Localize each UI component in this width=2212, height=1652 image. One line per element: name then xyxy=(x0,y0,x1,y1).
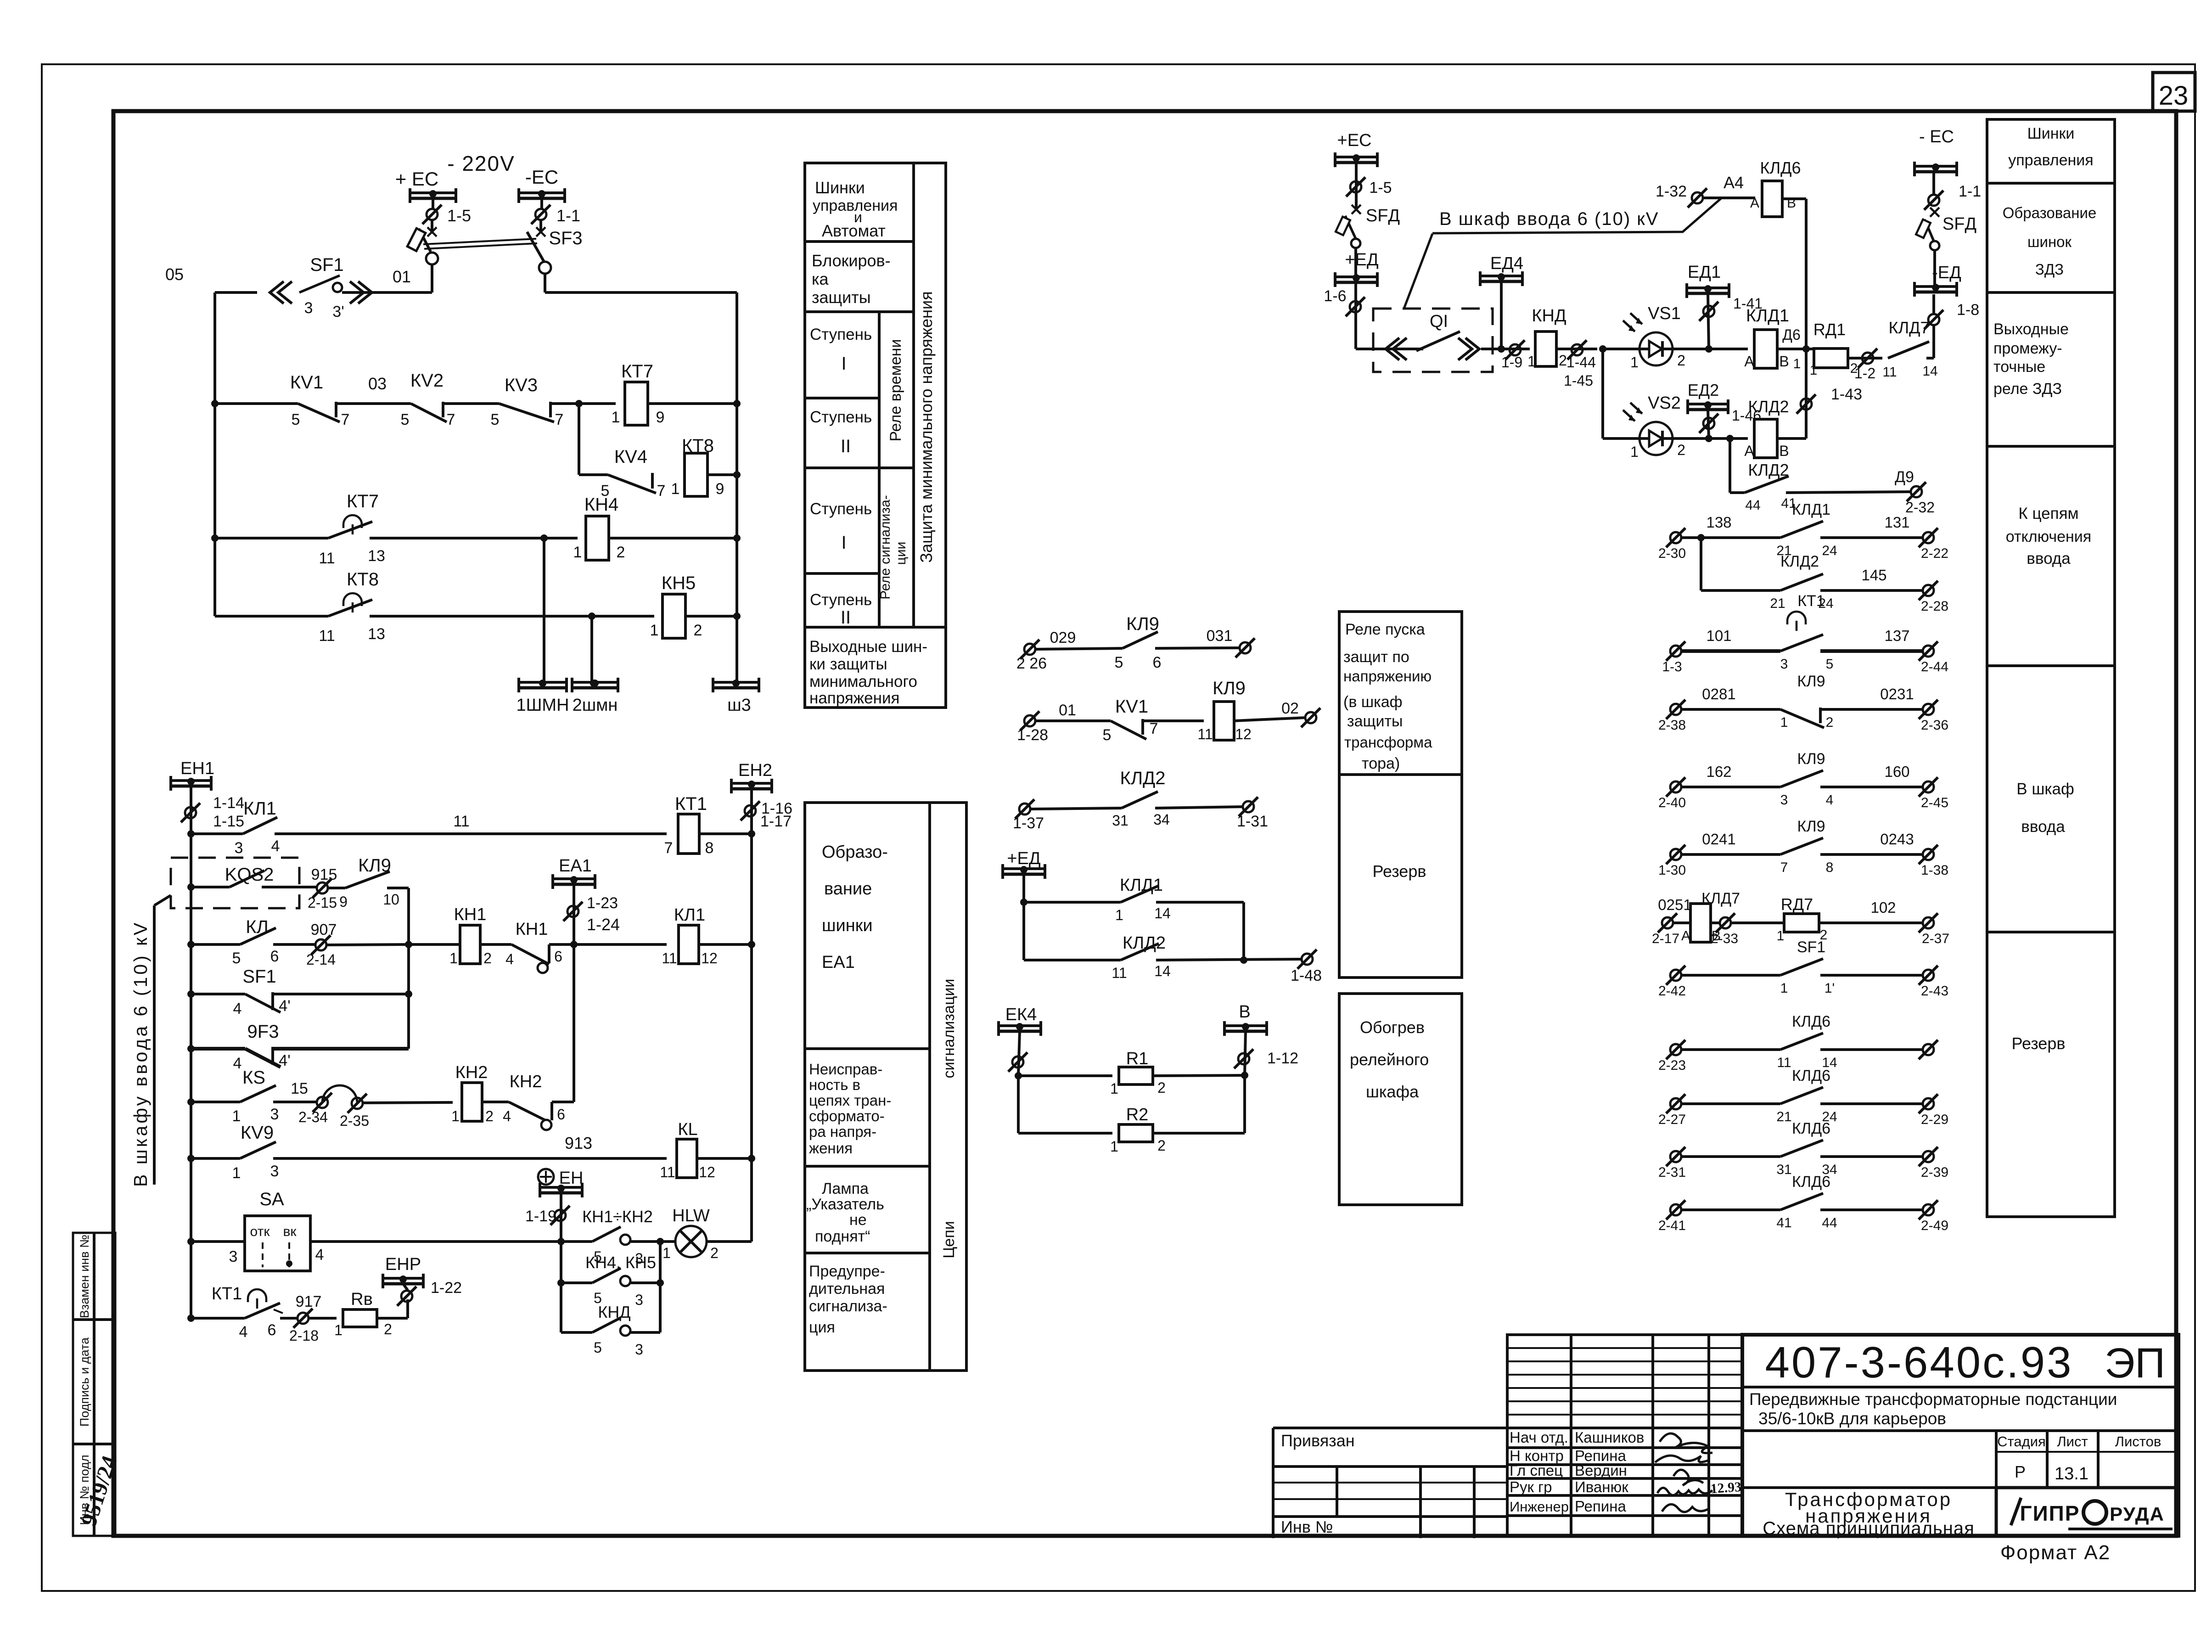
contact row KL9 0241-0243 xyxy=(1670,849,1681,860)
svg-text:А: А xyxy=(1681,928,1690,944)
svg-text:2: 2 xyxy=(710,1245,719,1261)
svg-text:5: 5 xyxy=(401,411,410,428)
svg-text:11: 11 xyxy=(1777,1055,1791,1070)
svg-text:1-43: 1-43 xyxy=(1831,386,1862,403)
svg-text:Неисправ-: Неисправ- xyxy=(809,1061,882,1078)
svg-text:Блокиров-: Блокиров- xyxy=(812,251,891,270)
dashed box KQS2 xyxy=(171,858,299,908)
terminal 1-22 xyxy=(401,1291,412,1302)
svg-text:5: 5 xyxy=(1826,657,1834,672)
wire row B1 xyxy=(275,832,667,835)
svg-text:2-36: 2-36 xyxy=(1921,718,1948,733)
svg-text:913: 913 xyxy=(565,1134,592,1152)
wire KT1-rail xyxy=(699,832,752,835)
svg-text:3: 3 xyxy=(270,1163,279,1180)
svg-text:12.93: 12.93 xyxy=(1710,1479,1742,1497)
terminal E7 right xyxy=(1923,1044,1934,1055)
svg-text:5: 5 xyxy=(491,411,500,428)
svg-text:2: 2 xyxy=(1157,1137,1166,1154)
svg-text:Инженер: Инженер xyxy=(1510,1499,1569,1515)
wire KT8-rail xyxy=(707,473,737,476)
svg-text:+ЕД: +ЕД xyxy=(1345,250,1379,270)
svg-text:31: 31 xyxy=(1776,1162,1791,1177)
svg-text:КТ7: КТ7 xyxy=(347,491,379,511)
svg-text:жения: жения xyxy=(809,1140,853,1157)
svg-text:1: 1 xyxy=(451,1108,460,1124)
terminal 1-2 xyxy=(1862,353,1873,364)
svg-text:2-14: 2-14 xyxy=(306,951,336,968)
svg-text:SFД: SFД xyxy=(1366,206,1400,225)
svg-text:II: II xyxy=(841,607,851,628)
svg-text:2-18: 2-18 xyxy=(289,1327,319,1344)
svg-text:КЛ9: КЛ9 xyxy=(1797,750,1825,768)
svg-text:145: 145 xyxy=(1861,567,1886,584)
svg-text:1-30: 1-30 xyxy=(1658,863,1686,878)
svg-text:12: 12 xyxy=(699,1164,715,1180)
contact 9F3 xyxy=(187,1045,195,1052)
svg-text:4: 4 xyxy=(233,1055,242,1072)
svg-text:1-12: 1-12 xyxy=(1267,1050,1298,1067)
svg-text:1: 1 xyxy=(1630,444,1639,460)
svg-text:1-1: 1-1 xyxy=(556,206,580,225)
svg-text:Взамен инв №: Взамен инв № xyxy=(78,1235,91,1318)
svg-text:шинок: шинок xyxy=(2027,233,2072,250)
svg-text:1: 1 xyxy=(1527,353,1536,370)
svg-text:Передвижные трансформаторные п: Передвижные трансформаторные подстанции xyxy=(1749,1390,2117,1409)
wire KH5-rail xyxy=(685,615,737,618)
wire C5 right xyxy=(1156,959,1302,960)
svg-text:2-30: 2-30 xyxy=(1658,546,1686,561)
svg-text:КЛД2: КЛД2 xyxy=(1780,553,1819,570)
svg-text:14: 14 xyxy=(1154,905,1171,922)
titleblock logo box xyxy=(1996,1488,2178,1536)
svg-text:1-37: 1-37 xyxy=(1013,815,1044,832)
svg-text:SF1: SF1 xyxy=(242,966,276,987)
terminal 1-44 xyxy=(1572,344,1583,355)
terminal 1-8 xyxy=(1928,314,1939,325)
svg-text:44: 44 xyxy=(1822,1215,1837,1231)
svg-text:Rв: Rв xyxy=(351,1290,373,1309)
svg-text:2-40: 2-40 xyxy=(1658,795,1686,810)
contact KT1 time xyxy=(187,1315,195,1322)
svg-text:QI: QI xyxy=(1430,312,1448,331)
svg-text:RД7: RД7 xyxy=(1781,895,1813,914)
svg-text:34: 34 xyxy=(1153,811,1170,828)
svg-text:11: 11 xyxy=(453,813,469,830)
svg-text:2-37: 2-37 xyxy=(1922,931,1949,946)
table T2 box xyxy=(805,803,966,1371)
breaker SFD right xyxy=(1933,250,1936,287)
svg-text:Привязан: Привязан xyxy=(1281,1431,1355,1450)
wire C2 mid xyxy=(1143,719,1204,722)
contact row SF1 1-1p xyxy=(1670,970,1681,981)
svg-text:трансформа: трансформа xyxy=(1344,734,1432,751)
svg-text:1-48: 1-48 xyxy=(1291,967,1322,984)
svg-text:релейного: релейного xyxy=(1350,1050,1429,1069)
wire R2 right xyxy=(1153,1132,1245,1135)
svg-text:1: 1 xyxy=(662,1245,671,1261)
wire KV4 branch xyxy=(578,404,580,475)
svg-text:2: 2 xyxy=(483,950,492,966)
svg-text:01: 01 xyxy=(393,267,411,286)
wire +ED down xyxy=(1022,874,1025,960)
svg-text:1: 1 xyxy=(671,480,680,498)
wire KH2 to EA1 xyxy=(552,1101,574,1103)
svg-text:КL: КL xyxy=(678,1120,697,1139)
svg-text:1: 1 xyxy=(1780,715,1788,730)
svg-text:8: 8 xyxy=(705,839,714,857)
wire -EC down xyxy=(540,198,543,209)
svg-text:ЕА1: ЕА1 xyxy=(559,856,592,876)
bus -ED xyxy=(1932,294,1935,314)
svg-text:1-5: 1-5 xyxy=(447,206,471,225)
terminal 1-41 xyxy=(1703,306,1714,317)
svg-text:+ EC: + EC xyxy=(395,168,439,190)
svg-text:точные: точные xyxy=(1993,358,2045,376)
svg-text:2-44: 2-44 xyxy=(1921,659,1948,674)
svg-text:2: 2 xyxy=(1559,352,1567,369)
svg-text:41: 41 xyxy=(1776,1215,1791,1231)
svg-text:5: 5 xyxy=(232,950,241,967)
terminal 1-5 xyxy=(427,209,438,220)
svg-text:2-45: 2-45 xyxy=(1921,795,1948,810)
contact KV9 xyxy=(187,1155,195,1162)
svg-text:ЕН1: ЕН1 xyxy=(180,759,214,778)
svg-text:4: 4 xyxy=(1826,792,1834,808)
svg-text:24: 24 xyxy=(1822,543,1837,558)
contact KS xyxy=(187,1098,195,1106)
svg-text:4': 4' xyxy=(279,1052,290,1069)
svg-text:1-14: 1-14 xyxy=(213,794,244,812)
svg-text:1: 1 xyxy=(232,1107,241,1125)
svg-text:Репина: Репина xyxy=(1575,1498,1626,1515)
svg-text:3: 3 xyxy=(229,1248,238,1265)
svg-text:2: 2 xyxy=(617,544,625,561)
svg-text:напряжения: напряжения xyxy=(809,689,899,707)
svg-text:23: 23 xyxy=(2159,81,2189,111)
terminal C2 right xyxy=(1305,712,1316,723)
svg-text:КНД: КНД xyxy=(598,1303,630,1321)
svg-text:11: 11 xyxy=(660,1164,675,1180)
svg-text:1: 1 xyxy=(232,1164,241,1182)
svg-text:101: 101 xyxy=(1706,627,1731,644)
wire EK4 down xyxy=(1018,1031,1020,1076)
svg-text:031: 031 xyxy=(1207,627,1233,645)
contact row KLD6 31-34 xyxy=(1670,1151,1681,1162)
switch SF1 chevron right xyxy=(358,281,372,303)
svg-text:I: I xyxy=(841,354,846,374)
svg-text:Ступень: Ступень xyxy=(810,500,872,518)
svg-text:1: 1 xyxy=(1110,1080,1118,1097)
svg-text:А: А xyxy=(1750,196,1759,211)
svg-text:7: 7 xyxy=(341,411,350,428)
svg-text:шинки: шинки xyxy=(822,916,873,935)
bus 2ShMN xyxy=(572,681,618,684)
titleblock signature 4 xyxy=(1657,1488,1712,1495)
svg-text:КV9: КV9 xyxy=(241,1123,274,1143)
svg-text:ка: ка xyxy=(812,270,829,288)
svg-text:2: 2 xyxy=(694,622,702,639)
rail A left xyxy=(213,292,216,616)
breaker SF3 blade xyxy=(527,232,544,262)
contact row KL9 162-160 xyxy=(1670,781,1681,792)
wire row A0 right xyxy=(342,291,432,294)
svg-text:не: не xyxy=(849,1211,867,1229)
svg-text:2-23: 2-23 xyxy=(1658,1058,1686,1073)
svg-text:реле ЗДЗ: реле ЗДЗ xyxy=(1993,380,2062,398)
svg-text:КЛД7: КЛД7 xyxy=(1889,318,1930,337)
svg-text:11: 11 xyxy=(1197,726,1213,742)
svg-text:Резерв: Резерв xyxy=(1373,862,1426,881)
svg-text:КН1: КН1 xyxy=(516,920,548,939)
svg-text:1: 1 xyxy=(1780,981,1788,996)
svg-text:2-29: 2-29 xyxy=(1921,1112,1948,1127)
wire down 2SHMN xyxy=(590,616,593,682)
terminal 1-16 1-17 xyxy=(745,805,756,816)
svg-text:5: 5 xyxy=(1115,654,1123,671)
svg-text:Формат А2: Формат А2 xyxy=(2000,1541,2111,1564)
svg-text:1ШМН: 1ШМН xyxy=(516,696,569,715)
svg-text:Д6: Д6 xyxy=(1782,326,1800,343)
wire down 1SHMN xyxy=(543,538,545,682)
svg-text:2: 2 xyxy=(1677,352,1685,369)
svg-text:2-42: 2-42 xyxy=(1658,983,1686,999)
titleblock main box xyxy=(1742,1335,2178,1536)
wire KT7-rail xyxy=(648,402,737,405)
wire C2 left xyxy=(1035,719,1111,722)
svg-text:13: 13 xyxy=(368,625,385,643)
svg-text:Рук гр: Рук гр xyxy=(1510,1478,1552,1495)
titleblock signature 1 xyxy=(1660,1433,1712,1453)
svg-text:КЛД6: КЛД6 xyxy=(1792,1067,1830,1084)
svg-text:КЛ9: КЛ9 xyxy=(1126,614,1159,634)
svg-text:1-19: 1-19 xyxy=(525,1208,556,1225)
svg-text:1-22: 1-22 xyxy=(431,1279,462,1297)
svg-text:2-38: 2-38 xyxy=(1658,718,1686,733)
svg-text:ЗДЗ: ЗДЗ xyxy=(2035,261,2064,278)
svg-text:1-17: 1-17 xyxy=(760,813,792,830)
wire RD1 right xyxy=(1848,357,1882,360)
wire 2-35 to KH2 xyxy=(363,1102,453,1103)
svg-text:2-34: 2-34 xyxy=(298,1109,328,1125)
svg-text:ЕНР: ЕНР xyxy=(385,1255,421,1274)
svg-text:VS2: VS2 xyxy=(1648,393,1681,413)
svg-text:Ступень: Ступень xyxy=(810,591,872,609)
svg-text:44: 44 xyxy=(1745,498,1760,513)
svg-text:1-32: 1-32 xyxy=(1656,183,1687,200)
svg-text:1: 1 xyxy=(612,409,620,426)
contact row KLD6 11-14 xyxy=(1670,1044,1681,1055)
svg-text:6: 6 xyxy=(554,948,562,965)
svg-text:Р: Р xyxy=(2015,1462,2026,1481)
wire ED4 down xyxy=(1500,281,1503,349)
svg-text:02: 02 xyxy=(1281,700,1299,717)
svg-text:отк: отк xyxy=(250,1224,270,1239)
svg-text:Защита минимального напряжения: Защита минимального напряжения xyxy=(917,291,936,562)
terminal 1-1 right xyxy=(1928,195,1939,206)
svg-text:Резерв: Резерв xyxy=(2012,1034,2066,1053)
contact row KT1 101-137 xyxy=(1670,646,1681,657)
svg-text:защиты: защиты xyxy=(1347,713,1403,730)
rail B left xyxy=(190,786,192,1318)
svg-text:SFД: SFД xyxy=(1943,214,1977,234)
titleblock mini table xyxy=(1507,1335,1742,1536)
wire R1 row xyxy=(1015,1072,1022,1079)
svg-text:9: 9 xyxy=(716,480,724,498)
svg-text:1: 1 xyxy=(650,622,659,639)
svg-text:КV2: КV2 xyxy=(410,371,444,391)
svg-text:2шмн: 2шмн xyxy=(573,696,618,715)
wire KH4-rail xyxy=(609,537,737,539)
junction VS xyxy=(1599,345,1606,353)
svg-text:7: 7 xyxy=(1150,720,1158,737)
terminal EK4 xyxy=(1012,1056,1023,1068)
svg-text:21: 21 xyxy=(1770,596,1785,611)
svg-text:1': 1' xyxy=(1825,981,1835,996)
terminal 1-48 xyxy=(1302,954,1313,965)
svg-text:Кашников: Кашников xyxy=(1575,1429,1644,1446)
svg-text:цепях тран-: цепях тран- xyxy=(809,1092,891,1109)
wire C3 right xyxy=(1155,807,1243,808)
svg-text:Реле времени: Реле времени xyxy=(887,339,904,441)
svg-text:шкафа: шкафа xyxy=(1366,1082,1419,1101)
svg-text:„Указатель: „Указатель xyxy=(806,1196,884,1213)
svg-text:7: 7 xyxy=(447,411,455,428)
wire ED2 down xyxy=(1708,410,1709,438)
svg-text:защит по: защит по xyxy=(1343,648,1409,666)
svg-text:R2: R2 xyxy=(1126,1105,1149,1124)
svg-text:2-28: 2-28 xyxy=(1921,599,1948,614)
contact row KLD1 138-131 xyxy=(1670,532,1681,543)
svg-text:ция: ция xyxy=(809,1319,835,1336)
wire KT8c mid xyxy=(370,615,654,618)
svg-text:1-38: 1-38 xyxy=(1921,863,1948,878)
svg-text:1: 1 xyxy=(449,950,458,966)
svg-text:Лист: Лист xyxy=(2057,1433,2088,1450)
bus Sh3 xyxy=(713,681,759,684)
wire R8 to EHP xyxy=(377,1317,408,1320)
svg-text:11: 11 xyxy=(1112,965,1127,981)
svg-text:3: 3 xyxy=(1780,792,1788,808)
svg-text:Лампа: Лампа xyxy=(822,1180,869,1197)
svg-text:ввода: ввода xyxy=(2027,550,2071,568)
svg-text:3: 3 xyxy=(1780,657,1788,672)
svg-text:сформато-: сформато- xyxy=(809,1107,885,1124)
svg-text:Образо-: Образо- xyxy=(822,843,888,862)
contact row KLD6 41-44 xyxy=(1670,1204,1681,1215)
wire KV1-KV2 xyxy=(336,402,411,405)
contact KH2 xyxy=(482,1101,509,1103)
svg-text:КЛД2: КЛД2 xyxy=(1120,768,1166,788)
wire VS1 right xyxy=(1673,348,1748,350)
svg-text:Шинки: Шинки xyxy=(2027,125,2075,142)
svg-text:А: А xyxy=(1744,353,1754,370)
svg-text:Шинки: Шинки xyxy=(815,178,865,197)
svg-text:К цепям: К цепям xyxy=(2018,505,2078,523)
svg-text:1-3: 1-3 xyxy=(1662,659,1682,674)
wire row KV9 xyxy=(273,1157,667,1160)
margin table box xyxy=(73,1233,115,1536)
resistor R8 xyxy=(309,1317,337,1320)
terminal 2-34 xyxy=(317,1097,328,1108)
wire KS out xyxy=(273,1101,317,1103)
svg-text:10: 10 xyxy=(383,891,399,908)
svg-text:VS1: VS1 xyxy=(1648,304,1681,323)
svg-text:Предупре-: Предупре- xyxy=(809,1263,885,1280)
contact row KLD6 21-24 xyxy=(1670,1098,1681,1109)
svg-text:КН2: КН2 xyxy=(510,1072,542,1091)
svg-text:11: 11 xyxy=(1882,365,1897,380)
table T5 grid xyxy=(1987,182,2115,185)
svg-text:907: 907 xyxy=(311,921,337,938)
svg-text:ЕД2: ЕД2 xyxy=(1688,381,1719,399)
svg-text:1-23: 1-23 xyxy=(587,894,618,912)
terminal 1-6 xyxy=(1350,301,1361,312)
breaker linkage double line xyxy=(423,239,536,244)
svg-text:4: 4 xyxy=(315,1246,324,1264)
svg-text:В шкафу ввода 6 (10) кV: В шкафу ввода 6 (10) кV xyxy=(130,921,151,1187)
svg-text:ра напря-: ра напря- xyxy=(809,1123,876,1140)
terminal 1-19 xyxy=(555,1210,566,1221)
wire R2 row xyxy=(1017,1076,1020,1133)
svg-text:КЛД1: КЛД1 xyxy=(1746,306,1789,326)
svg-text:102: 102 xyxy=(1870,899,1896,916)
svg-text:6: 6 xyxy=(270,948,279,965)
svg-text:КS: КS xyxy=(242,1068,265,1088)
svg-text:4: 4 xyxy=(233,1000,242,1017)
wire row KT7c xyxy=(215,537,328,539)
svg-text:Образование: Образование xyxy=(2003,204,2097,221)
svg-text:9: 9 xyxy=(656,409,665,426)
svg-text:НLW: НLW xyxy=(672,1206,710,1225)
terminal 1-5 d xyxy=(1350,181,1361,192)
svg-text:+ЕС: +ЕС xyxy=(1337,131,1372,150)
svg-text:Реле пуска: Реле пуска xyxy=(1345,621,1425,638)
svg-text:Гл спец: Гл спец xyxy=(1510,1462,1563,1479)
svg-text:Выходные: Выходные xyxy=(1993,320,2069,338)
terminal 1-43 xyxy=(1801,399,1812,410)
terminal 1-23 1-24 xyxy=(567,906,578,917)
svg-text:ш3: ш3 xyxy=(727,696,751,715)
svg-text:1: 1 xyxy=(1630,354,1639,371)
svg-text:КЛ9: КЛ9 xyxy=(1797,673,1825,690)
svg-text:1: 1 xyxy=(1110,1138,1118,1155)
svg-text:5: 5 xyxy=(594,1339,602,1356)
svg-text:KQS2: KQS2 xyxy=(225,865,274,885)
svg-text:0243: 0243 xyxy=(1880,831,1914,848)
svg-text:Иванюк: Иванюк xyxy=(1575,1478,1628,1495)
svg-text:Подпись и дата: Подпись и дата xyxy=(78,1337,91,1427)
wire KQS2 out xyxy=(262,886,317,888)
svg-text:Выходные шин-: Выходные шин- xyxy=(809,638,927,656)
rail A right xyxy=(735,292,738,682)
wire D9 branch xyxy=(1729,438,1731,493)
svg-text:сигнализа-: сигнализа- xyxy=(809,1298,887,1315)
terminal 1-9 xyxy=(1510,344,1521,355)
svg-text:КТ1: КТ1 xyxy=(212,1284,242,1304)
svg-text:3': 3' xyxy=(332,303,344,320)
breaker SF1 pole circle xyxy=(426,253,438,264)
wire SF1aux out xyxy=(273,993,409,995)
svg-text:ЕД4: ЕД4 xyxy=(1490,254,1523,273)
svg-text:1-24: 1-24 xyxy=(587,915,620,934)
wire to VS1 xyxy=(1603,348,1639,350)
svg-text:0231: 0231 xyxy=(1880,686,1914,702)
contact KL xyxy=(187,941,195,948)
wire +ED d down xyxy=(1354,282,1357,349)
wire x892 to KH1 xyxy=(409,943,460,946)
svg-text:А: А xyxy=(1744,443,1754,459)
